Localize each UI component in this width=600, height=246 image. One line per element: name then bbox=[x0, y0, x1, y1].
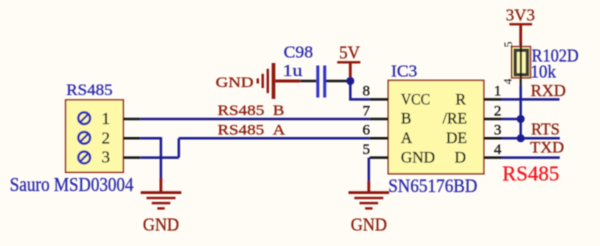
svg-text:10k: 10k bbox=[530, 62, 556, 82]
svg-text:GND: GND bbox=[351, 214, 387, 234]
svg-text:6: 6 bbox=[363, 123, 371, 139]
svg-text:5V: 5V bbox=[339, 43, 360, 63]
svg-text:R: R bbox=[456, 91, 467, 108]
svg-text:2: 2 bbox=[494, 103, 502, 119]
svg-text:RXD: RXD bbox=[531, 81, 566, 100]
svg-text:GND: GND bbox=[216, 75, 254, 91]
svg-text:TXD: TXD bbox=[530, 138, 564, 157]
svg-text:1: 1 bbox=[494, 84, 502, 100]
svg-text:3: 3 bbox=[102, 148, 110, 167]
svg-text:C98: C98 bbox=[284, 43, 313, 62]
svg-text:3: 3 bbox=[494, 123, 502, 139]
svg-text:/RE: /RE bbox=[443, 111, 467, 128]
svg-text:Sauro MSD03004: Sauro MSD03004 bbox=[10, 174, 134, 196]
svg-text:B: B bbox=[401, 111, 411, 128]
svg-text:7: 7 bbox=[363, 103, 371, 119]
svg-text:DE: DE bbox=[446, 130, 467, 147]
svg-text:IC3: IC3 bbox=[391, 62, 417, 81]
svg-text:2: 2 bbox=[102, 128, 110, 147]
svg-text:D: D bbox=[455, 149, 466, 166]
svg-text:GND: GND bbox=[401, 149, 435, 166]
svg-text:RS485 B: RS485 B bbox=[218, 103, 285, 119]
svg-text:RS485: RS485 bbox=[502, 162, 559, 186]
svg-text:5: 5 bbox=[363, 142, 371, 158]
svg-text:RTS: RTS bbox=[531, 120, 560, 139]
svg-text:RS485: RS485 bbox=[66, 82, 113, 99]
svg-text:4: 4 bbox=[500, 79, 514, 85]
svg-text:SN65176BD: SN65176BD bbox=[388, 176, 477, 197]
svg-text:8: 8 bbox=[363, 84, 371, 100]
svg-text:1u: 1u bbox=[283, 61, 303, 80]
svg-text:VCC: VCC bbox=[401, 91, 430, 108]
svg-text:1: 1 bbox=[102, 109, 110, 128]
svg-text:GND: GND bbox=[143, 214, 179, 234]
svg-text:4: 4 bbox=[494, 142, 502, 158]
svg-text:5: 5 bbox=[501, 42, 515, 48]
svg-text:3V3: 3V3 bbox=[506, 5, 535, 24]
svg-text:RS485 A: RS485 A bbox=[218, 122, 286, 138]
svg-text:A: A bbox=[401, 130, 413, 147]
